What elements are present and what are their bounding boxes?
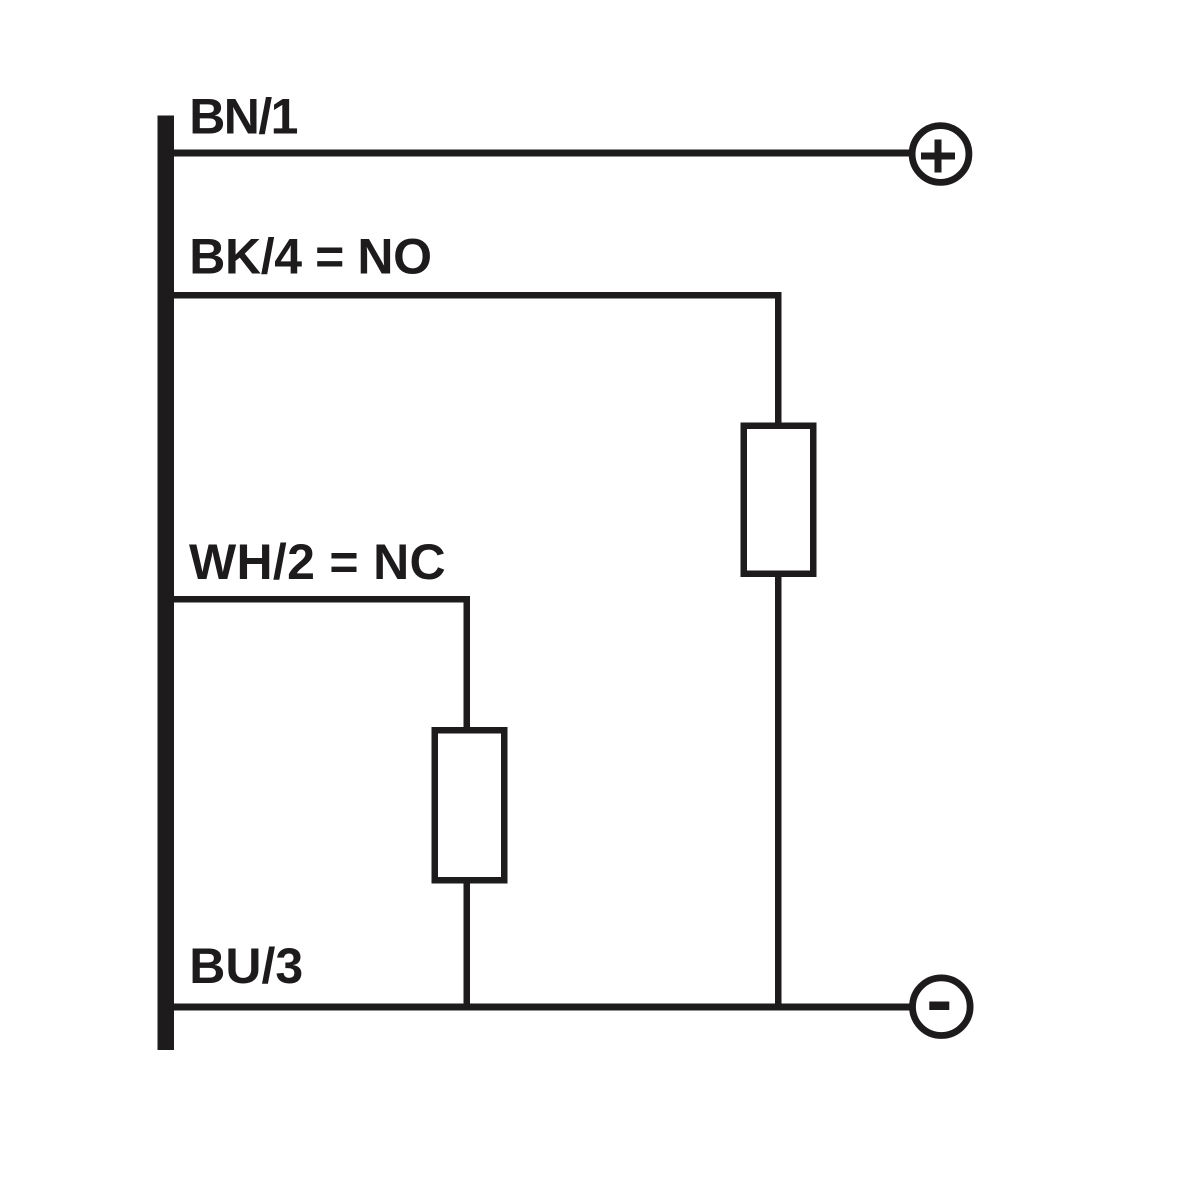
wire R2 bottom lead xyxy=(464,884,471,1011)
svg-text:BK/4 = NO: BK/4 = NO xyxy=(189,229,431,285)
wire BU/3 to - terminal xyxy=(174,1004,911,1011)
- terminal circle xyxy=(913,978,971,1036)
+ terminal circle xyxy=(912,126,969,183)
svg-text:BN/1: BN/1 xyxy=(189,89,297,145)
wire BN/1 to + terminal xyxy=(174,150,911,157)
wire WH/2 horizontal xyxy=(174,596,470,603)
load resistor R2 xyxy=(435,730,505,880)
wire WH/2 vertical drop to load R2 xyxy=(464,596,471,727)
load resistor R1 xyxy=(744,426,814,574)
wire BK/4 horizontal xyxy=(174,292,782,299)
wire BK/4 vertical drop to load R1 xyxy=(775,292,782,423)
svg-text:BU/3: BU/3 xyxy=(189,938,303,994)
- terminal minus sign xyxy=(929,1002,949,1011)
svg-text:WH/2 = NC: WH/2 = NC xyxy=(189,534,446,590)
+ terminal plus sign xyxy=(921,153,955,160)
wire R1 bottom lead xyxy=(775,577,782,1011)
sensor body bus bar xyxy=(158,116,175,1051)
